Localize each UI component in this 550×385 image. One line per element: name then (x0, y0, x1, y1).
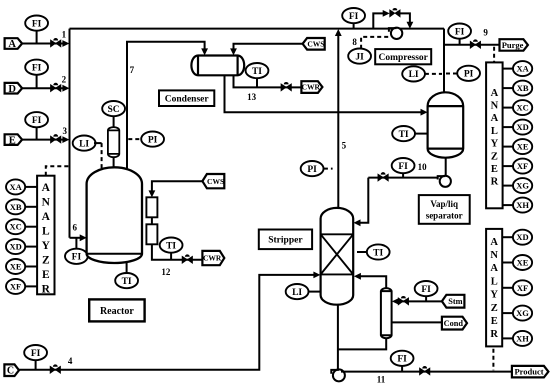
wire XF tick (analyzer 1) (25, 285, 37, 287)
wire FI-10 tick (402, 173, 404, 178)
indicator PI separator (457, 66, 480, 81)
wire XC tick (analyzer 2) (503, 107, 514, 109)
wire XD tick (analyzer 3) (502, 236, 513, 238)
svg-text:Product: Product (514, 367, 543, 377)
connector Product (512, 366, 549, 378)
indicator TI stripper (367, 244, 390, 259)
wire TI separator tick (415, 133, 428, 135)
arrow CWS into condenser (230, 48, 237, 55)
svg-text:L: L (491, 276, 498, 287)
svg-text:PI: PI (464, 70, 474, 80)
indicator JI compressor (348, 49, 371, 64)
svg-text:Y: Y (490, 290, 498, 301)
svg-text:4: 4 (68, 356, 73, 366)
wire XG tick (analyzer 3) (502, 312, 513, 314)
svg-text:R: R (491, 177, 499, 188)
svg-text:1: 1 (62, 29, 67, 39)
indicator PI stream 5 (301, 161, 324, 176)
svg-text:E: E (42, 269, 50, 281)
label box Reactor (89, 299, 144, 321)
svg-text:XB: XB (517, 83, 529, 93)
wire TI condenser tick (256, 78, 258, 87)
wire LI reactor dashed drop (101, 143, 103, 170)
wire CWS to coil (152, 181, 203, 190)
indicator TI coil outlet (160, 238, 183, 253)
wire condenser CW out (stream 13) (234, 75, 302, 87)
svg-text:FI: FI (32, 19, 42, 29)
svg-text:N: N (491, 101, 499, 112)
svg-text:3: 3 (63, 126, 68, 136)
wire coil middle (151, 217, 153, 224)
wire TI stripper tick (357, 251, 367, 253)
indicator FI feed E (25, 112, 48, 127)
svg-text:XH: XH (516, 200, 529, 210)
wire purge (stream 9) (444, 44, 500, 46)
svg-text:TI: TI (373, 248, 383, 258)
wire XB tick (analyzer 2) (503, 87, 514, 89)
wire analyzer sample dashed (stream 6) (46, 166, 69, 176)
pump separator bottoms (438, 176, 451, 187)
indicator LI stripper (286, 284, 309, 299)
svg-text:L: L (42, 225, 50, 237)
wire FI steam tick (425, 296, 427, 301)
wire FI-E tick (36, 127, 38, 139)
utility connector Stm (442, 295, 465, 308)
wire FI recycle tick (353, 23, 355, 28)
wire TI coil tick (170, 253, 172, 260)
valve stream 12 (182, 254, 192, 263)
arrow bypass down (407, 22, 414, 29)
arrow into separator (421, 109, 428, 116)
wire FI-D tick (36, 75, 38, 88)
indicator PI reactor (141, 132, 164, 147)
svg-text:FI: FI (397, 355, 407, 365)
composition bubble XH (analyzer 3) (513, 331, 532, 346)
coil section lower (146, 224, 157, 244)
svg-text:TI: TI (122, 277, 132, 287)
wire XA tick (analyzer 1) (25, 186, 37, 188)
wire TI reactor tick (126, 262, 128, 273)
svg-text:XA: XA (9, 182, 22, 192)
stripper vessel (321, 208, 354, 305)
wire PI separator dashed tick (446, 73, 457, 75)
wire XB tick (analyzer 1) (25, 206, 37, 208)
svg-text:CWR: CWR (302, 83, 321, 92)
svg-text:FI: FI (349, 12, 359, 22)
wire analyzer 2 sample dashed (493, 47, 495, 63)
pump product (331, 369, 345, 381)
arrow CWS into coil (149, 190, 156, 197)
svg-text:XB: XB (10, 202, 22, 212)
svg-text:A: A (490, 237, 498, 248)
wire steam line (397, 300, 442, 302)
indicator FI feed D (25, 60, 48, 75)
svg-text:C: C (7, 366, 14, 377)
utility connector Cond (442, 317, 467, 330)
svg-text:XH: XH (516, 333, 529, 343)
valve stream 2 (51, 83, 61, 92)
wire compressor bypass (373, 13, 383, 28)
utility connector CWS reactor (202, 174, 224, 188)
wire XE tick (analyzer 2) (503, 146, 514, 148)
composition bubble XB (analyzer 1) (6, 199, 25, 214)
analyzer 1 (reactor feed) box (37, 176, 54, 295)
agitator shaft cylinder (108, 127, 119, 157)
svg-text:R: R (490, 329, 498, 340)
composition bubble XG (analyzer 3) (513, 306, 532, 321)
wire condensate line (392, 321, 442, 323)
wire stream 4 (19, 275, 314, 370)
svg-text:5: 5 (342, 141, 347, 151)
valve stream 10 (378, 172, 388, 181)
svg-text:XG: XG (516, 308, 529, 318)
utility connector CWS condenser (303, 38, 325, 50)
analyzer 2 (purge) box (486, 62, 503, 208)
feed connector D (5, 83, 23, 95)
composition bubble XE (analyzer 3) (513, 255, 532, 270)
indicator FI product (391, 351, 414, 366)
svg-text:LI: LI (79, 139, 89, 149)
composition bubble XD (analyzer 2) (513, 120, 532, 135)
indicator FI stream 10 (392, 158, 415, 173)
reactor bottom seam (87, 253, 142, 255)
wire SC tick (113, 116, 115, 127)
wire stream 10 (368, 177, 438, 179)
svg-text:XC: XC (516, 103, 528, 113)
wire XH tick (analyzer 2) (503, 204, 514, 206)
svg-text:A: A (491, 113, 499, 124)
wire stream 6 into reactor (70, 237, 81, 239)
svg-text:D: D (8, 84, 16, 95)
indicator FI purge (448, 24, 471, 39)
svg-text:FI: FI (421, 285, 431, 295)
svg-text:Y: Y (42, 240, 51, 252)
wire condenser to separator (225, 75, 421, 112)
svg-text:12: 12 (161, 267, 171, 277)
svg-text:separator: separator (426, 211, 463, 221)
svg-text:PI: PI (307, 165, 317, 175)
svg-text:SC: SC (108, 105, 120, 115)
wire XF tick (analyzer 3) (502, 287, 513, 289)
indicator FI feed C (24, 345, 47, 360)
svg-text:LI: LI (292, 288, 302, 298)
composition bubble XA (analyzer 2) (513, 61, 532, 76)
arrow stream 6 into reactor (80, 234, 87, 241)
composition bubble XF (analyzer 2) (513, 159, 532, 174)
arrow bypass (383, 10, 390, 17)
indicator FI stream 6 (65, 249, 88, 264)
svg-text:Condenser: Condenser (165, 95, 210, 105)
svg-text:CWS: CWS (207, 177, 224, 186)
wire XF tick (analyzer 2) (503, 165, 514, 167)
wire LI separator dashed tick (425, 73, 442, 75)
svg-text:Z: Z (491, 303, 498, 314)
svg-text:Z: Z (491, 151, 498, 162)
wire recycle header (stream 8 top line) (70, 28, 445, 30)
controller SC agitator (102, 101, 125, 116)
svg-text:XF: XF (517, 283, 528, 293)
composition bubble XC (analyzer 1) (6, 219, 25, 234)
svg-text:N: N (42, 196, 51, 208)
svg-text:6: 6 (72, 223, 77, 233)
reactor vessel (87, 167, 142, 263)
wire XA tick (analyzer 2) (503, 68, 514, 70)
label box Stripper (259, 230, 312, 250)
wire XG tick (analyzer 2) (503, 185, 514, 187)
utility connector CWR condenser (301, 81, 322, 93)
svg-text:XF: XF (10, 281, 21, 291)
arrow stream 3 into header (62, 136, 69, 143)
wire PI-5 dashed tick (324, 168, 333, 170)
indicator FI recycle (342, 8, 365, 23)
condenser vessel (191, 56, 244, 76)
composition bubble XF (analyzer 1) (6, 279, 25, 294)
svg-text:PI: PI (148, 135, 158, 145)
label box Compressor (375, 49, 431, 64)
arrow reboiler vapor into stripper (354, 273, 361, 280)
wire feed A (22, 43, 63, 45)
label box Condenser (159, 90, 214, 106)
feed connector A (5, 38, 23, 50)
wire XE tick (analyzer 1) (25, 266, 37, 268)
svg-text:L: L (491, 126, 498, 137)
svg-text:Y: Y (491, 139, 499, 150)
valve stream 3 (51, 134, 61, 143)
composition bubble XE (analyzer 2) (513, 139, 532, 154)
stripper packing X section (321, 234, 354, 274)
wire feed header down to reactor (69, 29, 71, 238)
wire FI-A tick (36, 31, 38, 44)
svg-text:CWR: CWR (203, 254, 222, 263)
analyzer 3 (product) box (486, 229, 502, 347)
svg-text:A: A (490, 263, 498, 274)
svg-text:Cond: Cond (444, 319, 464, 328)
svg-text:A: A (42, 211, 51, 223)
indicator LI separator (402, 66, 425, 81)
indicator TI condenser (246, 63, 269, 78)
svg-text:XA: XA (516, 64, 529, 74)
arrow stream 2 into header (62, 85, 69, 92)
svg-text:CWS: CWS (307, 39, 324, 48)
wire agitator to reactor dome (113, 157, 115, 168)
valve stream 1 (51, 38, 61, 47)
wire feed E (22, 139, 63, 141)
composition bubble XF (analyzer 3) (513, 280, 532, 295)
svg-text:XC: XC (9, 222, 21, 232)
svg-text:FI: FI (72, 253, 82, 263)
arrow steam into reboiler (392, 298, 399, 305)
svg-text:Compressor: Compressor (378, 53, 428, 63)
wire reboiler vapor return (361, 276, 387, 287)
feed connector C (4, 364, 19, 376)
svg-text:2: 2 (62, 74, 67, 84)
svg-text:XE: XE (10, 262, 22, 272)
valve steam (398, 296, 408, 305)
arrow stream 7 into condenser (201, 48, 208, 55)
label box Vap/liq separator (419, 195, 470, 224)
svg-text:XD: XD (516, 232, 528, 242)
valve bypass (390, 8, 400, 17)
wire XD tick (analyzer 2) (503, 126, 514, 128)
svg-text:Stm: Stm (448, 297, 462, 306)
svg-text:11: 11 (377, 374, 386, 384)
svg-text:E: E (491, 164, 498, 175)
svg-text:E: E (491, 316, 498, 327)
reboiler vessel (381, 288, 392, 338)
svg-text:Vap/liq: Vap/liq (430, 199, 458, 209)
wire stream 10 drop to stripper (360, 178, 368, 223)
svg-text:10: 10 (418, 162, 428, 172)
svg-text:Z: Z (42, 254, 50, 266)
composition bubble XA (analyzer 1) (6, 179, 25, 194)
feed connector E (5, 134, 23, 146)
wire separator vapor riser (443, 29, 445, 92)
svg-text:FI: FI (31, 349, 41, 359)
arrow stream 4 into stripper (313, 272, 320, 279)
valve stream 13 (281, 82, 291, 91)
svg-text:Reactor: Reactor (100, 306, 134, 317)
indicator TI reactor bottom (115, 273, 138, 288)
svg-text:7: 7 (130, 65, 135, 75)
svg-text:Purge: Purge (502, 40, 524, 50)
svg-text:XF: XF (517, 161, 528, 171)
indicator LI reactor (73, 136, 96, 151)
wire FI-6 tick (75, 238, 77, 249)
wire stream 11 product line (341, 371, 512, 373)
indicator FI feed A (25, 16, 48, 31)
wire XE tick (analyzer 3) (502, 262, 513, 264)
svg-text:FI: FI (32, 64, 42, 74)
composition bubble XH (analyzer 2) (513, 198, 532, 213)
composition bubble XC (analyzer 2) (513, 100, 532, 115)
composition bubble XG (analyzer 2) (513, 178, 532, 193)
svg-text:XE: XE (517, 142, 529, 152)
svg-text:XE: XE (517, 258, 529, 268)
wire XH tick (analyzer 3) (502, 337, 513, 339)
arrow stream 10 into stripper (354, 219, 361, 226)
wire stripper bottoms (337, 305, 339, 369)
wire FI-11 tick (401, 366, 403, 372)
svg-text:FI: FI (398, 162, 408, 172)
arrow stream 5 into recycle (335, 29, 342, 36)
svg-text:XD: XD (9, 242, 21, 252)
svg-text:E: E (9, 135, 16, 146)
indicator FI steam (415, 281, 438, 296)
vap/liq separator vessel (428, 92, 464, 157)
wire bypass return (400, 13, 410, 22)
wire FI purge tick (459, 39, 461, 45)
wire LI stripper tick (309, 291, 321, 293)
svg-text:N: N (490, 250, 498, 261)
svg-text:XG: XG (516, 181, 529, 191)
compressor (389, 28, 402, 39)
wire feed D (22, 87, 63, 89)
wire stream 5 stripper overhead (337, 36, 339, 209)
utility connector CWR reactor (202, 251, 224, 265)
svg-text:LI: LI (409, 70, 419, 80)
wire XC tick (analyzer 1) (25, 226, 37, 228)
svg-text:R: R (42, 283, 51, 295)
svg-text:8: 8 (352, 37, 357, 47)
wire reboiler bottoms return (338, 339, 386, 350)
composition bubble XD (analyzer 1) (6, 239, 25, 254)
valve stream 9 (470, 39, 480, 48)
wire LI reactor tick (94, 142, 102, 144)
wire separator liquid outlet (445, 158, 447, 176)
svg-text:9: 9 (483, 28, 488, 38)
svg-text:A: A (491, 88, 499, 99)
svg-text:JI: JI (355, 52, 364, 62)
svg-text:FI: FI (455, 27, 465, 37)
svg-text:TI: TI (399, 130, 409, 140)
composition bubble XE (analyzer 1) (6, 259, 25, 274)
wire coil to CWR (stream 12) (152, 244, 202, 259)
composition bubble XD (analyzer 3) (513, 230, 532, 245)
composition bubble XB (analyzer 2) (513, 81, 532, 96)
svg-text:A: A (42, 182, 51, 194)
arrow stream 1 into header (62, 40, 69, 47)
wire PI reactor dashed tick (128, 138, 141, 140)
svg-text:A: A (8, 39, 16, 50)
svg-text:13: 13 (247, 92, 257, 102)
wire analyzer 3 sample dashed (492, 349, 494, 370)
indicator TI separator (392, 126, 415, 141)
coil section upper (146, 197, 157, 217)
wire JI dashed to compressor (361, 37, 389, 49)
svg-text:Stripper: Stripper (268, 236, 303, 246)
wire XD tick (analyzer 1) (25, 246, 37, 248)
valve stream 11 (420, 366, 430, 375)
svg-text:TI: TI (166, 241, 176, 251)
wire FI-C tick (35, 360, 37, 370)
svg-text:FI: FI (32, 116, 42, 126)
svg-text:XD: XD (516, 122, 528, 132)
wire CWS condenser (234, 44, 303, 49)
valve stream 4 (50, 364, 60, 373)
svg-text:TI: TI (252, 67, 262, 77)
connector Purge (500, 39, 528, 51)
wire stream 7 reactor to condenser (127, 42, 205, 170)
